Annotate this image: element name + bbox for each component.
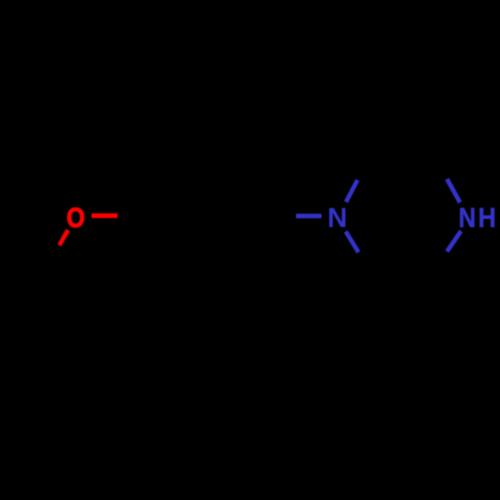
bond N1-C2 (blue half, up-right stub) bbox=[346, 180, 358, 202]
svg-text:H: H bbox=[478, 202, 496, 234]
bond O-C4' (red half, wire to phenyl ring) bbox=[92, 213, 118, 218]
svg-text:N: N bbox=[327, 202, 347, 233]
bond N4-C5 (blue half, down-left stub) bbox=[447, 231, 461, 252]
svg-text:O: O bbox=[67, 203, 85, 233]
bond C1'-N1 (blue half, wire from phenyl to piperazine N1) bbox=[296, 214, 322, 218]
bond N1-C6 (blue half, down-right stub) bbox=[346, 232, 359, 253]
bond O-CH3 (red half, wire to methyl) bbox=[59, 230, 68, 245]
bond N4-C3 (blue half, up-left stub) bbox=[447, 179, 460, 203]
svg-text:N: N bbox=[459, 203, 476, 233]
